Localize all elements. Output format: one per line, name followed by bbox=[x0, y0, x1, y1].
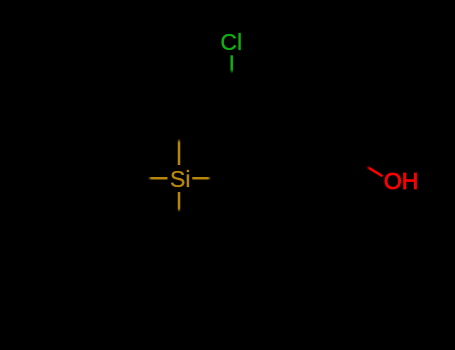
bond C-O (red half-bond to hydroxyl, fades toward carbon) bbox=[367, 167, 383, 177]
bond Si-C down (golden half-bond below Si) bbox=[178, 192, 181, 212]
bond Si-C right (golden half-bond right of Si) bbox=[192, 177, 211, 180]
svg-text:Cl: Cl bbox=[220, 29, 242, 55]
bond C-Cl (green half-bond below Cl, fades toward carbon) bbox=[230, 55, 233, 73]
bond Si-C up (golden half-bond above Si) bbox=[178, 139, 181, 165]
bond Si-C left (golden half-bond left of Si) bbox=[148, 177, 168, 180]
svg-text:OH: OH bbox=[384, 168, 419, 194]
svg-text:Si: Si bbox=[170, 166, 190, 192]
